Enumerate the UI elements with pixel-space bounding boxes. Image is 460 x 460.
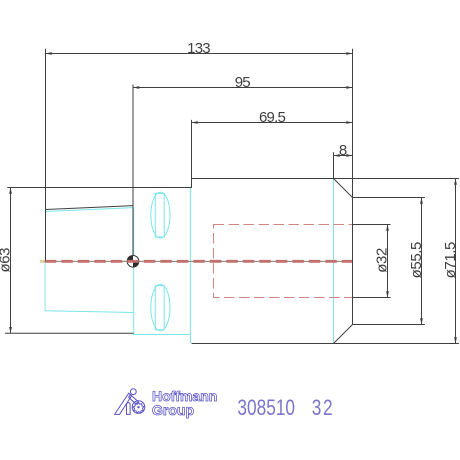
svg-text:308510: 308510 bbox=[237, 396, 295, 421]
arrows 133 bbox=[46, 52, 52, 55]
centerline thick red dashes bbox=[45, 260, 353, 263]
ø55.5 top ext bbox=[353, 197, 425, 199]
dim line ø32 bbox=[387, 225, 389, 298]
arrows ø63 bbox=[9, 188, 12, 194]
Hoffmann Group logo text bbox=[152, 388, 217, 418]
chamfer top bbox=[334, 179, 353, 198]
svg-text:ø63: ø63 bbox=[0, 248, 13, 273]
chamfer start vertical bbox=[333, 179, 335, 344]
collet top taper (cyan) bbox=[46, 208, 134, 212]
wheel rim bbox=[132, 401, 145, 414]
cyan part edges bbox=[45, 179, 334, 344]
upper wrench slot bbox=[151, 192, 170, 238]
mid-section bottom edge bbox=[133, 334, 191, 336]
collet left face lower half bbox=[44, 261, 46, 311]
svg-text:ø32: ø32 bbox=[373, 248, 390, 273]
main body top edge + ø71.5 ext bbox=[192, 178, 459, 180]
gear star bbox=[133, 402, 144, 413]
arrows ø32 bbox=[386, 225, 389, 231]
collet top taper (black) bbox=[46, 206, 134, 210]
ext line 133 left / collet left face upper bbox=[45, 49, 47, 261]
svg-text:133: 133 bbox=[187, 40, 210, 57]
dimension arrowheads bbox=[9, 52, 457, 343]
arrows ø55.5 bbox=[420, 198, 423, 204]
arm band bbox=[129, 395, 139, 404]
svg-text:ø71.5: ø71.5 bbox=[442, 242, 459, 278]
lower wrench slot bbox=[151, 284, 170, 331]
right ext / part right face bbox=[352, 49, 354, 325]
svg-text:Group: Group bbox=[152, 402, 194, 418]
ø63 bottom ext bbox=[5, 332, 134, 334]
article number bbox=[237, 396, 334, 421]
Hoffmann Group logo icon bbox=[115, 389, 145, 415]
collet bottom taper bbox=[45, 311, 133, 313]
mid/main-body boundary vertical bbox=[189, 188, 191, 343]
arrows 95 bbox=[133, 86, 139, 89]
arrows 8 bbox=[334, 154, 340, 157]
ext line 8 bbox=[333, 152, 335, 178]
svg-text:95: 95 bbox=[235, 74, 251, 91]
dim line 95 bbox=[133, 87, 353, 89]
collet/mid-section boundary vertical bbox=[133, 208, 135, 335]
dim line 8 bbox=[334, 155, 353, 157]
dim line ø71.5 bbox=[455, 179, 457, 344]
back and rear leg band bbox=[115, 393, 132, 414]
dim line ø63 bbox=[10, 188, 12, 334]
svg-text:ø55.5: ø55.5 bbox=[408, 242, 425, 278]
svg-text:8: 8 bbox=[339, 142, 347, 159]
hidden bore dashed rectangle (ø32) bbox=[214, 225, 353, 298]
main body bottom edge + ø71.5 ext bbox=[192, 343, 459, 345]
ø63 top ext / mid-section top edge bbox=[7, 187, 191, 189]
ext line 69.5 / body step edge bbox=[191, 120, 193, 188]
arrows 69.5 bbox=[192, 121, 198, 124]
dimension texts bbox=[0, 40, 459, 278]
chamfer bottom bbox=[334, 325, 353, 344]
front leg bbox=[127, 403, 131, 415]
head bbox=[130, 389, 136, 395]
arrows ø71.5 bbox=[454, 179, 457, 185]
svg-text:69.5: 69.5 bbox=[259, 109, 285, 126]
ø32 top ext bbox=[353, 224, 391, 226]
ext line 95 bbox=[132, 85, 134, 256]
black part outline and dimensions bbox=[5, 49, 459, 344]
svg-text:32: 32 bbox=[312, 396, 334, 421]
ø32 bottom ext bbox=[353, 297, 391, 299]
dim line 69.5 bbox=[192, 122, 353, 124]
ø55.5 bottom ext bbox=[353, 324, 425, 326]
centerline thin dark line bbox=[40, 260, 353, 262]
dim line ø55.5 bbox=[421, 198, 423, 325]
dim line 133 bbox=[46, 53, 353, 55]
hub bbox=[137, 406, 139, 408]
centerline yellow lead dash bbox=[40, 260, 44, 263]
coolant ball quadrant symbol bbox=[127, 255, 139, 267]
